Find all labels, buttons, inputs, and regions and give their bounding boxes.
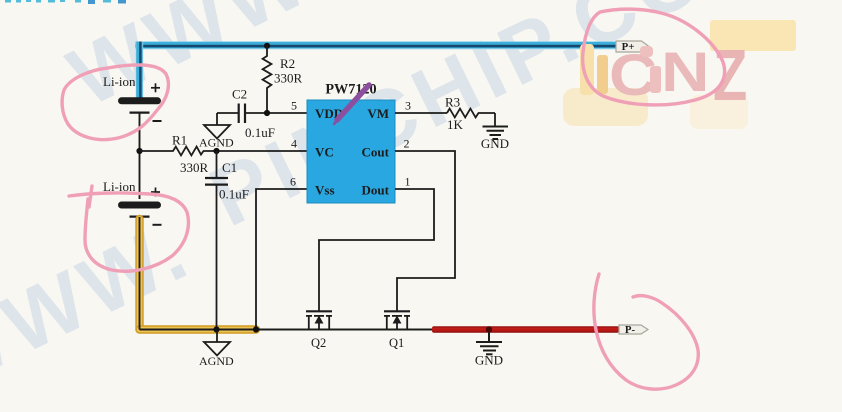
transistor Q1 — [384, 311, 410, 329]
svg-text:P-: P- — [625, 324, 636, 336]
resistor R3 — [447, 109, 495, 118]
resistor R1 — [140, 147, 217, 156]
svg-text:C2: C2 — [232, 87, 247, 102]
svg-text:Vss: Vss — [315, 183, 335, 198]
cut-off blue text dashes top edge — [5, 0, 126, 4]
port P- — [619, 324, 648, 336]
wire P+ net horizontal (cyan highlighted) — [136, 42, 617, 50]
svg-text:5: 5 — [291, 99, 297, 113]
wire bottom rail B- to Q1 — [140, 329, 435, 331]
svg-text:GND: GND — [481, 136, 509, 151]
iCiNZ logo letters — [597, 35, 747, 115]
svg-text:330R: 330R — [274, 71, 303, 86]
junction on P+ wire at R2 — [264, 43, 270, 49]
junction Vss on bottom rail — [253, 326, 259, 332]
svg-text:4: 4 — [291, 137, 297, 151]
svg-text:Q1: Q1 — [389, 336, 404, 350]
battery BT2 Li-ion — [122, 205, 158, 217]
svg-text:330R: 330R — [180, 160, 209, 175]
svg-text:6: 6 — [290, 175, 296, 189]
svg-text:Q2: Q2 — [311, 336, 326, 350]
ground GND1 (top right) — [483, 113, 509, 139]
wire B- yellow highlighted vertical — [140, 219, 257, 330]
junction C1 on bottom rail — [213, 326, 219, 332]
svg-text:Dout: Dout — [362, 183, 390, 198]
battery BT2 plus sign — [151, 188, 160, 197]
wire P+ net vertical to battery BT1 — [136, 42, 143, 99]
junction GND on P- wire — [486, 326, 492, 332]
svg-text:R2: R2 — [280, 56, 295, 71]
wire Vss pin 6 — [256, 189, 307, 330]
svg-text:1K: 1K — [447, 117, 464, 132]
ground AGND1 (top, at C2) — [204, 113, 230, 139]
ground GND2 (bottom) — [476, 332, 502, 354]
annotation pink circle around BT1 — [62, 65, 168, 140]
capacitor C1 — [205, 151, 228, 330]
svg-text:R1: R1 — [172, 133, 187, 148]
battery BT2 minus sign — [153, 224, 162, 226]
svg-text:Cout: Cout — [362, 145, 390, 160]
junction R2/C2/VDD node — [264, 110, 270, 116]
wire Cout pin 2 to Q1 gate — [395, 151, 455, 311]
svg-text:Z: Z — [713, 35, 747, 115]
battery BT1 Li-ion — [122, 101, 158, 113]
svg-text:1: 1 — [405, 175, 411, 189]
svg-text:C1: C1 — [222, 160, 237, 175]
svg-text:0.1uF: 0.1uF — [219, 187, 249, 202]
svg-text:GND: GND — [475, 353, 503, 368]
wire VC node to IC pin 4 — [217, 150, 308, 152]
annotation pink circle around P+ — [583, 9, 725, 105]
svg-text:VC: VC — [315, 145, 334, 160]
battery BT1 plus sign — [151, 83, 160, 92]
port P+ — [616, 41, 649, 53]
op-amp U1 PW7120 body — [307, 100, 395, 203]
wire B- black core vertical — [139, 217, 141, 330]
svg-text:Li-ion: Li-ion — [103, 74, 136, 89]
wire VM pin 3 — [395, 112, 447, 114]
wire Dout pin 1 to Q2 gate — [319, 189, 434, 311]
wire P- net red highlighted — [432, 326, 619, 333]
svg-text:3: 3 — [405, 99, 411, 113]
svg-text:0.1uF: 0.1uF — [245, 125, 275, 140]
annotation purple marker stroke over U1 — [334, 85, 369, 124]
iCiNZ watermark backdrop yellow blocks — [563, 20, 796, 129]
ground AGND2 (bottom rail) — [204, 331, 230, 356]
svg-text:2: 2 — [404, 137, 410, 151]
transistor Q2 — [306, 311, 332, 329]
svg-text:AGND: AGND — [199, 354, 234, 368]
wire battery mid node — [139, 113, 141, 199]
svg-text:AGND: AGND — [199, 136, 234, 150]
annotation pink circle around BT2 — [69, 186, 188, 271]
svg-text:VM: VM — [367, 106, 389, 121]
junction R1/C1/VC node — [213, 148, 219, 154]
battery BT1 minus sign — [153, 120, 162, 122]
junction battery mid / R1 — [136, 148, 142, 154]
capacitor C2 — [217, 104, 267, 124]
annotation pink circle around P- — [594, 274, 698, 389]
resistor R2 — [263, 46, 272, 113]
svg-text:N: N — [661, 41, 710, 103]
wire VDD node to IC pin 5 — [267, 112, 307, 114]
svg-text:R3: R3 — [445, 95, 460, 110]
